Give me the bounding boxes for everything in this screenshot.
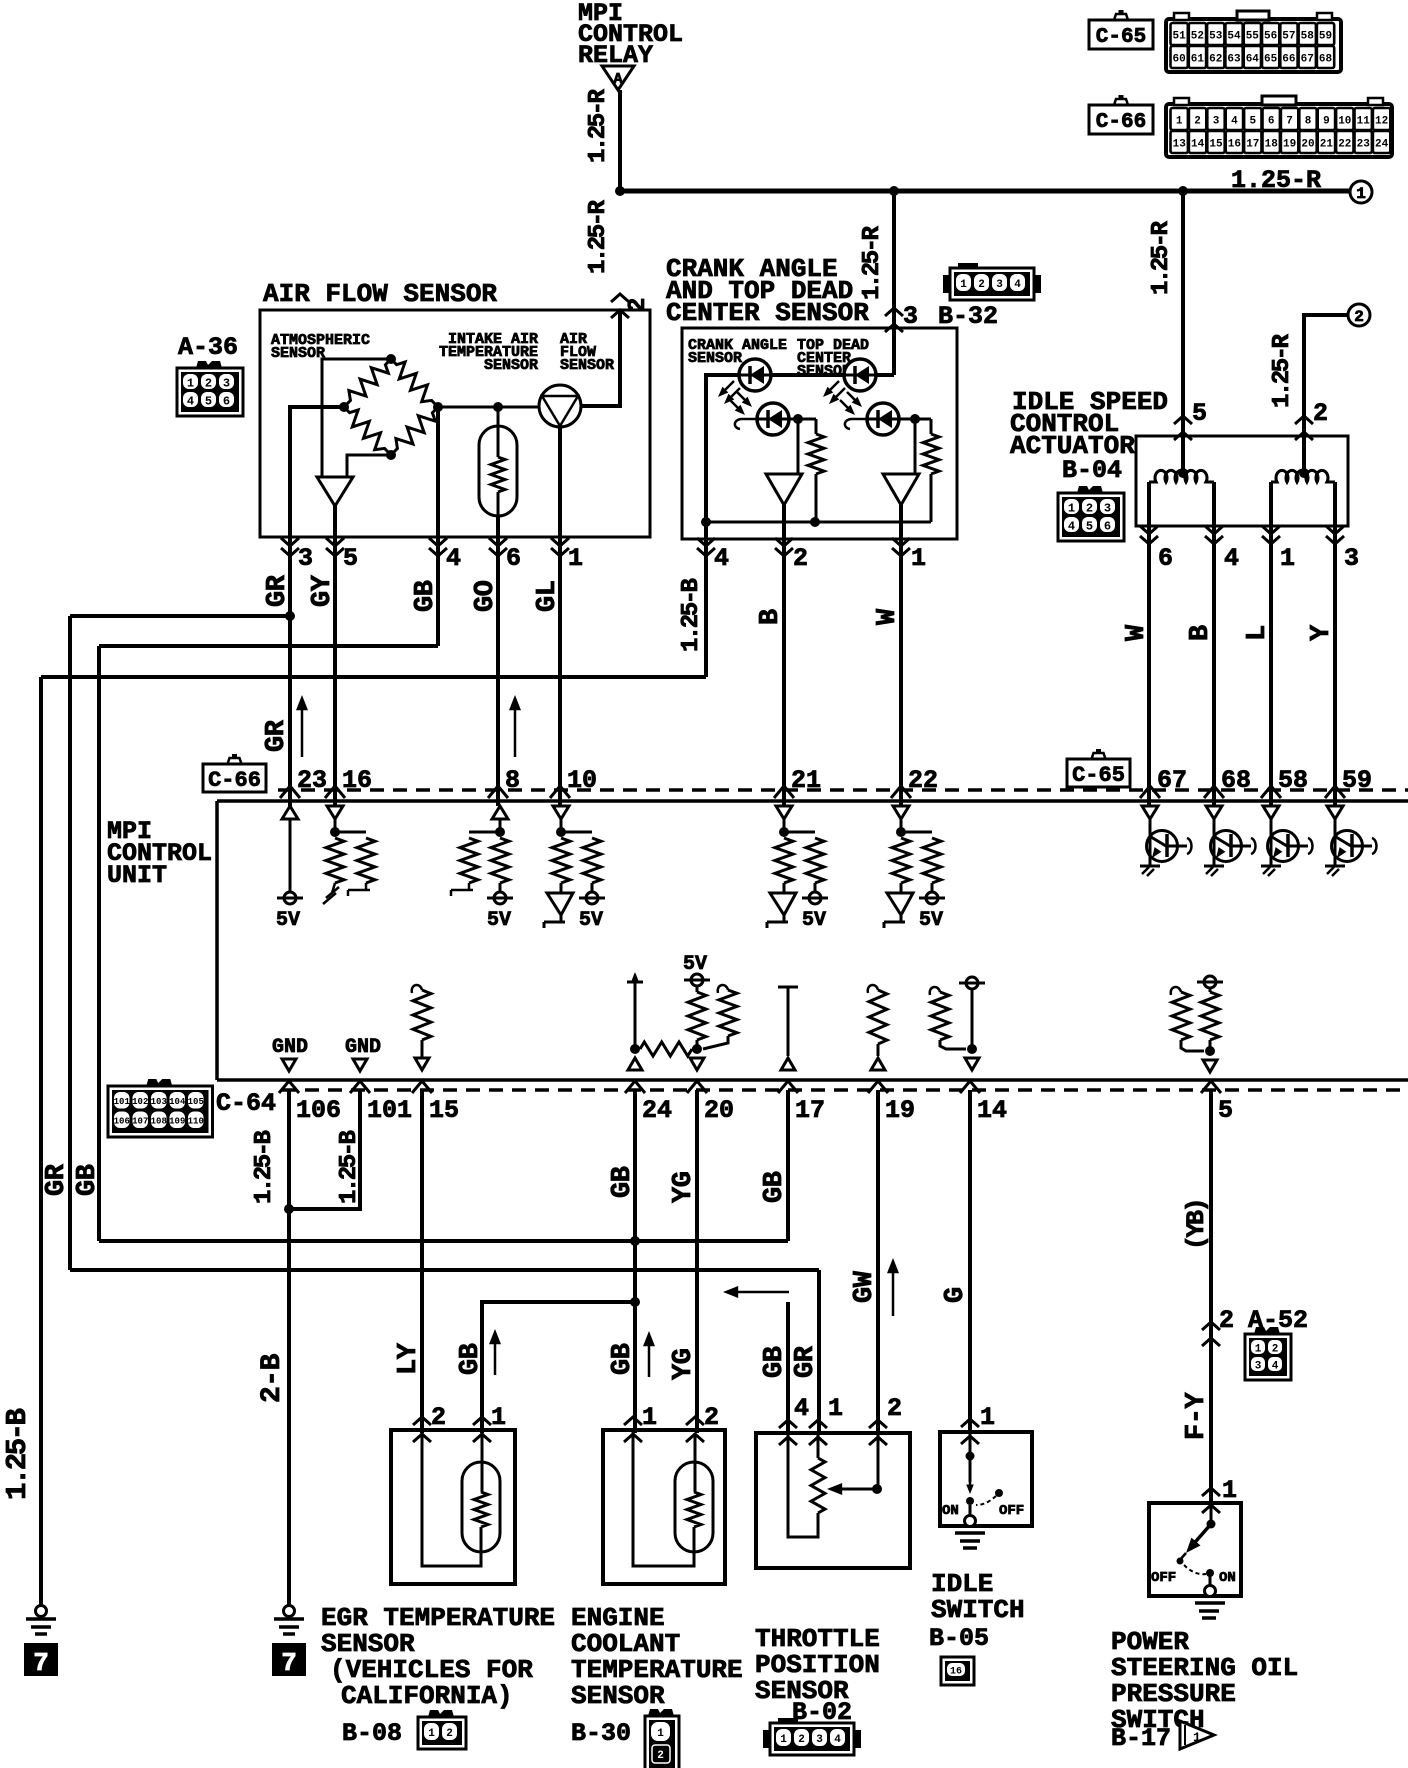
svg-text:4: 4 [187,394,194,408]
svg-text:6: 6 [1268,116,1275,128]
connector B-05 icon [941,1657,974,1685]
connector C-65 interface label [1067,759,1130,787]
svg-text:2: 2 [1219,1306,1234,1335]
svg-text:(YB): (YB) [1182,1200,1211,1250]
svg-text:59: 59 [1319,31,1332,43]
node crank photo [793,414,803,424]
wire 1.25-R to B-32 pin3 [892,191,896,375]
pin20 triangle [690,1058,704,1070]
light arrows tdc photo [847,392,859,404]
EGR thermistor [481,1433,484,1492]
MPI pin 101 chevron [350,1081,370,1093]
pin21 resistor b [784,831,815,834]
svg-text:CENTER SENSOR: CENTER SENSOR [666,298,869,328]
EGR inner wire pin2 [422,1430,481,1566]
svg-text:6: 6 [223,394,230,408]
node junction relay/bus [615,186,625,196]
svg-text:18: 18 [1265,139,1279,151]
wire junction to capsule [497,407,500,428]
svg-text:OFF: OFF [1151,1570,1176,1586]
svg-text:5V: 5V [276,909,300,932]
svg-text:58: 58 [1301,31,1315,43]
connector B-02 icon [763,1730,771,1748]
light arrows tdc LED [826,381,839,394]
svg-text:C-66: C-66 [208,768,261,793]
svg-text:1: 1 [568,544,583,573]
svg-text:8: 8 [505,766,520,795]
bridge resistor bottom-left [338,401,396,460]
node junction ISC drop [1178,186,1188,196]
ECT pin1 chevrons [624,1417,642,1425]
wire GY pin5 to pin16 [333,537,337,806]
TPS box [756,1433,910,1568]
MPI pin 23 chevron [280,786,300,798]
wire main 1.25-R bus [620,189,1352,194]
pin20 5V supply [691,974,703,986]
svg-text:GR: GR [262,719,292,752]
node bridge left [339,402,349,412]
wire GB bus to TPS pin4 [786,1302,790,1433]
svg-text:57: 57 [1282,31,1295,43]
wire ISC coil2 right to pin3 [1333,482,1337,806]
air flow sensor symbol [539,385,581,427]
svg-text:1.25-R: 1.25-R [1269,333,1296,408]
pin68 driver transistor [1213,819,1216,866]
wire 19 to TPS pin2 [876,1090,880,1433]
svg-text:14: 14 [1191,139,1205,151]
ISC pin 1 chevrons [1262,526,1280,534]
svg-text:SENSOR: SENSOR [688,350,742,367]
svg-text:22: 22 [1338,139,1351,151]
svg-text:6: 6 [506,544,521,573]
pin14 wire [971,989,974,1049]
wire 20 to ECT pin2 [695,1090,699,1433]
svg-text:1: 1 [1068,501,1075,515]
phototransistor tdc [867,403,899,435]
svg-text:10: 10 [567,766,597,795]
svg-text:106: 106 [296,1096,341,1125]
amp crank triangle [766,474,802,505]
svg-text:67: 67 [1157,766,1187,795]
wire bridge bottom to triangle [347,455,391,477]
wire W pin1 to pin22 [899,539,903,806]
node GR branch [285,611,295,621]
svg-text:65: 65 [1264,54,1278,66]
MPI pin 17 chevron [778,1081,798,1093]
svg-text:5V: 5V [919,909,943,932]
svg-text:103: 103 [151,1097,167,1107]
PS switch box [1149,1503,1241,1596]
MPI box bottom edge [217,1078,1408,1082]
svg-text:2: 2 [1354,308,1364,326]
pin21 node [783,819,786,832]
svg-text:68: 68 [1221,766,1251,795]
svg-text:GB: GB [456,1343,486,1375]
svg-text:5: 5 [1249,116,1256,128]
idle switch OFF contact [995,1489,1003,1497]
svg-text:16: 16 [342,766,372,795]
wire triangle to pin 5 [333,506,337,537]
pin8 resistor b [491,838,509,883]
B-32 pin3 chevrons [885,308,903,316]
svg-text:106: 106 [114,1116,130,1126]
pin19 pullup resistor [868,985,878,993]
svg-text:SENSOR: SENSOR [560,357,614,374]
svg-text:B-30: B-30 [571,1719,631,1748]
pin14 resistor [930,987,940,995]
MPI pin 58 chevron [1261,786,1281,798]
connector C-65 label box [1089,20,1153,49]
wire 1.25-B left vertical [39,677,43,1606]
arrow left GR [731,1291,789,1294]
light arrows crank LED [721,381,734,394]
svg-text:2: 2 [657,1750,664,1762]
TPS wiper [872,1484,882,1494]
svg-text:66: 66 [1282,54,1295,66]
arrow up GB egr [494,1337,497,1375]
idle switch node [966,1452,975,1461]
svg-text:59: 59 [1342,766,1372,795]
svg-text:24: 24 [1375,139,1389,151]
svg-text:4: 4 [834,1734,841,1746]
svg-text:56: 56 [1264,31,1277,43]
wire GB pin4 down [436,537,440,646]
pin59 driver transistor [1334,819,1337,866]
pin10 node [560,819,563,832]
svg-text:20: 20 [1301,139,1314,151]
svg-text:SENSOR: SENSOR [484,357,538,374]
svg-text:1: 1 [780,1734,787,1746]
ISC coil 2 [1271,470,1335,482]
svg-text:101: 101 [367,1096,412,1125]
pin17 internal stub [778,986,798,989]
wire relay to bus 1.25-R [618,90,622,191]
svg-text:2: 2 [431,1403,446,1432]
ECT capsule [675,1462,713,1552]
svg-text:GND: GND [345,1036,381,1059]
pin8 node [499,819,502,832]
wire GR to TPS pin1 [817,1270,821,1433]
connector A-36 icon [196,361,222,368]
svg-text:4: 4 [1224,544,1239,573]
svg-text:1: 1 [1255,1343,1262,1355]
svg-text:W: W [873,608,903,625]
arrow up GW [892,1268,895,1316]
pin19 triangle [871,1058,885,1070]
svg-text:2: 2 [978,279,985,291]
pin8 resistor a [469,831,500,834]
svg-text:4: 4 [714,544,729,573]
connector C-66 label box [1089,105,1153,134]
PS switch earth [1195,1601,1225,1605]
pin8 input triangle [492,806,508,819]
wire GR left vertical [68,616,72,1270]
pin22 5V supply [926,892,938,904]
ground 1.25-B earth [36,1606,47,1617]
svg-text:64: 64 [1246,54,1260,66]
svg-text:1: 1 [1193,1730,1201,1745]
AFS pin 3 chevrons [281,538,299,546]
connector B-30 icon [648,1709,674,1716]
svg-text:1.25-R: 1.25-R [1148,220,1175,295]
wire GR branch left [70,614,290,618]
resistor tdc load [930,419,933,434]
svg-text:15: 15 [1209,139,1223,151]
ISC coil 1 [1149,470,1214,482]
svg-text:3: 3 [223,376,230,390]
arrow up GO [514,703,517,757]
MPI pin 106 chevron [279,1081,299,1093]
svg-text:5: 5 [205,394,212,408]
wire GB EGR branch [482,1302,635,1433]
idle switch wire to ground [969,1505,972,1515]
pin23 wire to 5V [289,819,292,892]
svg-text:1: 1 [1176,116,1183,128]
wire GO pin6 to pin8 [496,537,500,806]
wire 5 to PS switch [1209,1090,1213,1503]
MPI pin 59 chevron [1325,786,1345,798]
connector C-65 pin diagram [1166,19,1341,72]
wire ISC coil1 right to pin4 [1212,482,1216,806]
svg-text:B-32: B-32 [938,302,998,331]
phototransistor crank [757,403,789,435]
svg-text:SENSOR: SENSOR [271,345,325,362]
svg-text:8: 8 [1305,116,1312,128]
svg-text:13: 13 [1173,139,1187,151]
wire photo crank out [789,418,816,421]
ground 106 earth [284,1606,295,1617]
pin22 resistor b [901,831,932,834]
svg-text:2: 2 [793,544,808,573]
svg-text:3: 3 [903,302,918,331]
svg-text:5: 5 [1218,1096,1233,1125]
pin23 5V supply [284,892,296,904]
wire bridge left to pin 3 [290,407,344,537]
pin20 resistor a [696,986,699,992]
svg-text:3: 3 [1104,501,1111,515]
pin68 input triangle [1206,806,1222,819]
svg-text:109: 109 [169,1116,185,1126]
pin 2 entry chevrons [611,294,629,302]
svg-text:10: 10 [1338,116,1351,128]
atmospheric sensor output triangle [317,477,353,506]
svg-text:1: 1 [980,1403,995,1432]
svg-text:55: 55 [1246,31,1260,43]
svg-text:105: 105 [188,1097,204,1107]
pin59 input triangle [1327,806,1343,819]
node bridge right [433,402,443,412]
svg-text:67: 67 [1301,54,1314,66]
svg-text:20: 20 [704,1096,734,1125]
pin10 resistor a [552,838,570,883]
svg-text:102: 102 [132,1097,148,1107]
node intake air temp junction [493,402,503,412]
A-52 chevrons [1202,1322,1220,1330]
svg-text:62: 62 [1209,54,1222,66]
svg-text:LY: LY [394,1342,424,1375]
MPI control relay triangle A [602,66,634,90]
svg-text:2: 2 [1272,1343,1279,1355]
node tdc photo [910,414,920,424]
svg-text:3: 3 [1255,1360,1262,1372]
svg-text:5: 5 [1086,519,1093,533]
wire 101 down [289,1090,360,1209]
svg-text:GB: GB [73,1164,103,1196]
wire B-32 top internal [706,375,894,522]
pin23 input triangle [282,806,298,819]
node pin5 [1205,1046,1215,1056]
EGR capsule [462,1462,500,1552]
pin67 input triangle [1142,806,1158,819]
node bridge bottom [386,450,396,460]
svg-text:1: 1 [657,1728,664,1740]
wire tdc to amp [914,419,917,474]
MPI pin 5 chevron [1201,1081,1221,1093]
svg-text:104: 104 [169,1097,186,1107]
MPI pin 67 chevron [1140,786,1160,798]
pin10 resistor b [561,831,592,834]
svg-text:B-04: B-04 [1062,456,1122,485]
pin8 5V supply [494,892,506,904]
MPI pin 10 chevron [550,786,570,798]
wire 1.25-R to ISC pin5 [1181,191,1185,470]
wire amp crank to pin2 [782,505,786,539]
wire B-32 ground bus [706,521,931,524]
resistor crank load [815,419,818,434]
wire GR bottom horizontal [70,1268,819,1272]
svg-text:F-Y: F-Y [1182,1392,1212,1440]
svg-text:GR: GR [42,1163,72,1196]
bridge resistor top-right [385,353,443,412]
MPI bottom dashed line [282,1088,1408,1092]
svg-text:15: 15 [429,1096,459,1125]
MPI pin 15 chevron [412,1081,432,1093]
svg-text:YG: YG [669,1172,699,1203]
LED tdc [844,359,876,391]
svg-text:2-B: 2-B [257,1353,288,1403]
pin16 resistor b [335,831,366,834]
pin22 resistor a [892,838,910,883]
PS switch blade [1190,1524,1211,1548]
svg-text:14: 14 [977,1096,1007,1125]
svg-text:1: 1 [187,376,194,390]
wire B-32 pin4 down [704,522,708,677]
node pin20 [692,1044,702,1054]
svg-text:OFF: OFF [999,1503,1024,1519]
connector B-08 icon [428,1710,454,1717]
svg-text:17: 17 [795,1096,825,1125]
AFS pin 6 chevrons [489,538,507,546]
pin5 triangle [1203,1060,1217,1072]
TPS pin2 wire [877,1433,880,1489]
MPI box left edge [215,801,219,1080]
svg-text:58: 58 [1278,766,1308,795]
svg-text:24: 24 [642,1096,672,1125]
svg-text:23: 23 [1357,139,1371,151]
svg-text:3: 3 [298,544,313,573]
pin10 comparator triangle [547,893,573,915]
svg-text:C-65: C-65 [1072,763,1125,788]
pin24 internal tap [627,981,643,984]
svg-text:1: 1 [428,1728,435,1740]
svg-text:1.25-R: 1.25-R [585,199,612,274]
svg-text:AIR FLOW SENSOR: AIR FLOW SENSOR [263,279,497,309]
svg-text:1.25-B: 1.25-B [1,1408,34,1500]
pin20 resistor b [718,985,728,993]
idle switch box [940,1432,1032,1526]
svg-text:2: 2 [446,1728,453,1740]
svg-text:5: 5 [1192,399,1207,428]
node B-32 bus left [701,517,711,527]
pin21 resistor a [775,838,793,883]
svg-text:GR: GR [791,1345,821,1378]
pin101 gnd triangle [353,1059,367,1071]
MPI pin 20 chevron [687,1081,707,1093]
wire crank to amp [797,419,800,474]
B-32 box [682,328,957,539]
idle switch pin1 chevrons [961,1419,979,1427]
svg-text:W: W [1122,624,1152,641]
bridge resistor bottom-right [385,401,443,460]
pin67 driver transistor [1149,819,1152,866]
PS switch node [1207,1520,1216,1529]
svg-text:1.25-R: 1.25-R [585,88,612,163]
wire 106 down [287,1090,291,1606]
wire 17 down to GB bus [786,1090,790,1241]
pin15 triangle [415,1058,429,1070]
svg-text:1.25-B: 1.25-B [251,1130,278,1204]
PS switch dashed link [1184,1565,1206,1574]
wire 15 to EGR pin2 [420,1090,424,1433]
svg-text:60: 60 [1172,54,1185,66]
svg-text:1: 1 [828,1394,843,1423]
wire GL pin1 to pin10 [558,537,562,806]
connector C-66 interface label [203,764,266,792]
svg-text:L: L [1243,625,1273,641]
ground 106 box 7 [272,1643,306,1676]
node ISC coil1 tap [1178,468,1188,478]
ECT inner wire pin1 [633,1430,694,1566]
LED crank angle [739,359,771,391]
svg-text:101: 101 [114,1097,131,1107]
svg-text:2: 2 [1086,501,1093,515]
ISC box [1136,436,1348,526]
ground 1.25-B box 7 [24,1643,58,1676]
svg-text:SWITCH: SWITCH [931,1595,1025,1625]
pin10 input triangle [553,806,569,819]
svg-text:GB: GB [760,1171,790,1203]
TPS pin2 chevrons [869,1420,887,1428]
svg-text:110: 110 [188,1116,204,1126]
wire photo tdc out [899,418,931,421]
svg-text:3: 3 [816,1734,823,1746]
svg-text:ON: ON [942,1503,959,1519]
svg-text:19: 19 [885,1096,915,1125]
wire GB bottom horizontal [99,1239,788,1243]
svg-text:1: 1 [1222,1476,1237,1505]
svg-text:Y: Y [1307,624,1337,641]
pin15 pullup resistor [412,985,422,993]
svg-text:A-36: A-36 [178,333,238,362]
TPS pot resistor [817,1433,820,1458]
svg-text:2: 2 [625,298,652,312]
wire circle to 1.25-R entry [581,310,620,406]
amp tdc triangle [883,474,919,505]
PS switch pin1 chevrons [1202,1488,1220,1496]
svg-text:7: 7 [281,1648,297,1678]
light arrows crank photo [737,392,749,404]
ISC pin2 chevrons [1295,416,1313,424]
